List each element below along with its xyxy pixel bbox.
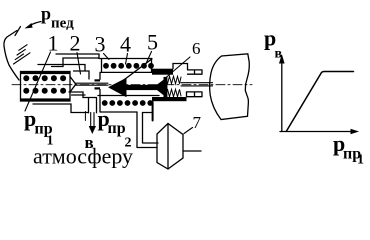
valve stem (left)	[76, 83, 108, 85]
leader of 6	[166, 57, 190, 78]
bottom chamber right wall	[152, 102, 154, 121]
graph x-axis	[280, 131, 352, 133]
label p_ped (pedal force)	[41, 4, 74, 32]
svg-text:пр: пр	[108, 120, 126, 137]
right section housing outline (bottom)	[187, 92, 203, 97]
brake chamber (part 7)	[157, 124, 183, 170]
thick double arrow (air flow)	[108, 77, 167, 98]
svg-text:1: 1	[48, 31, 59, 56]
spring block part1: outer box with thick top/bottom bars	[21, 72, 71, 102]
label p_pr1	[24, 106, 54, 149]
svg-text:пед: пед	[51, 16, 74, 32]
leader of 4	[126, 54, 128, 65]
top spring chamber top line	[99, 59, 152, 73]
right section housing: bottom flange bar	[152, 97, 187, 101]
label p_pr2	[98, 106, 132, 151]
housing: upper-left cover outlines	[56, 54, 99, 59]
stem to diaphragm fork	[181, 83, 213, 86]
leader of 3	[104, 54, 110, 60]
housing: lower-left outlines	[69, 92, 97, 113]
graph label p_v	[264, 26, 283, 62]
svg-text:р: р	[41, 4, 51, 24]
wire: pedal force leader arrow	[30, 22, 41, 26]
housing: outer bottom line under spring block	[33, 104, 89, 113]
valve seat notches	[95, 79, 101, 81]
part labels 1-7	[48, 30, 202, 133]
svg-text:5: 5	[147, 30, 158, 55]
spring block coil: bottom row of coils	[23, 88, 66, 94]
pusher cone at spring block output	[70, 77, 76, 93]
centerline (dash-dot axis)	[12, 84, 252, 86]
piston section diagonal	[119, 59, 152, 84]
graph curve	[287, 72, 354, 132]
leader of 5	[146, 52, 152, 64]
pipe to brake chamber	[137, 112, 158, 148]
svg-text:6: 6	[192, 39, 201, 58]
leader of 2	[77, 53, 81, 75]
leader of 7	[184, 128, 193, 134]
follow-up coil spring (zigzag) above stem	[168, 76, 182, 84]
svg-text:2: 2	[70, 31, 81, 56]
svg-text:4: 4	[120, 32, 131, 57]
svg-text:7: 7	[193, 113, 202, 132]
graph label p_pr1 (x axis)	[333, 131, 364, 168]
brake chamber output line	[183, 150, 201, 152]
svg-text:в: в	[275, 47, 283, 62]
right section housing outline (top)	[173, 64, 202, 75]
follow-up coil spring (zigzag) below stem	[168, 89, 182, 97]
label: v atmosferu	[33, 133, 133, 169]
bottom spring chamber bottom line	[100, 96, 153, 113]
spring block coil: top row of coils	[23, 75, 66, 81]
lever	[4, 31, 19, 81]
pivot hatching (fixed support)	[14, 53, 31, 64]
small port wall tick	[84, 112, 86, 121]
diaphragm fork shape	[210, 54, 250, 120]
piston chamber walls	[99, 72, 101, 95]
top spring row (part 5)	[103, 63, 154, 69]
svg-text:атмосферу: атмосферу	[33, 144, 133, 169]
exhaust arrow (to atmosphere)	[91, 113, 94, 128]
graph y-axis	[281, 60, 283, 132]
bottom spring row	[102, 100, 153, 106]
leader of 1	[25, 52, 51, 111]
right section housing: top flange bar	[152, 69, 173, 75]
svg-text:3: 3	[95, 32, 106, 57]
svg-text:1: 1	[357, 153, 364, 168]
lever end tick	[15, 27, 21, 36]
